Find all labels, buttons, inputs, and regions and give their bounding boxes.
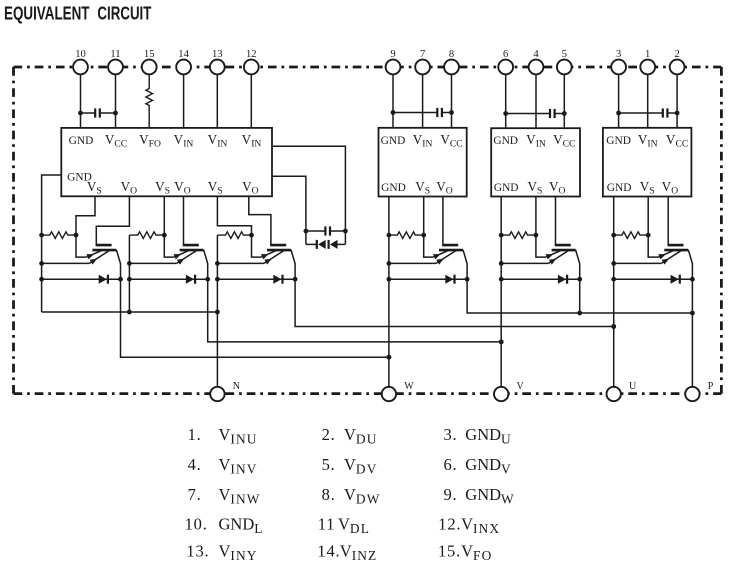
svg-text:GNDW: GNDW — [465, 485, 515, 507]
svg-text:GND: GND — [493, 135, 518, 147]
title text — [4, 2, 152, 23]
svg-text:VINU: VINU — [219, 425, 258, 447]
transistor Q4 (IGBT, high-side W) — [433, 245, 467, 279]
svg-text:GND: GND — [607, 182, 632, 194]
ic U3 (HVIC V-phase driver) — [491, 128, 580, 196]
svg-text:VINX: VINX — [461, 515, 500, 537]
wire collector Q4 to P bus — [467, 279, 695, 315]
svg-text:VINZ: VINZ — [340, 542, 378, 561]
svg-text:VFO: VFO — [461, 542, 492, 561]
wire VO to gate Q4 — [442, 197, 444, 246]
wire VS3 jog — [217, 196, 251, 235]
svg-text:4: 4 — [533, 49, 539, 60]
pin 4 — [529, 49, 544, 128]
wire VO2 to gate Q2 — [183, 196, 185, 245]
resistor R1 — [39, 232, 78, 239]
wire VO to gate Q5 — [555, 197, 557, 246]
resistor R3 — [217, 232, 254, 239]
pin 1 — [640, 49, 655, 128]
wire VO1 to gate Q1 — [96, 196, 129, 245]
diode D5 — [501, 275, 582, 284]
wire U1 to bootstrap loop left — [272, 176, 306, 231]
svg-text:GNDL: GNDL — [219, 515, 264, 537]
transistor Q1 (IGBT, low-side) — [86, 245, 120, 279]
capacitor C4 (pin3-pin2) — [616, 108, 679, 117]
diode D3 — [217, 275, 297, 284]
ic U2 (HVIC W-phase driver) — [379, 128, 467, 197]
transistor Q5 (IGBT, high-side V) — [546, 245, 580, 279]
svg-text:VDU: VDU — [344, 425, 377, 447]
wire U1 to bootstrap loop right — [272, 146, 345, 231]
pin 15 — [142, 49, 157, 128]
module case outline (dash-dot border) — [14, 67, 722, 394]
wire VO3 to gate Q3 — [249, 196, 271, 245]
transistor Q3 (IGBT, low-side) — [261, 245, 295, 279]
pin name list — [185, 425, 515, 563]
resistor R4 — [389, 232, 426, 239]
wire emitter Q6 — [614, 262, 662, 264]
pin 14 — [176, 49, 191, 128]
svg-text:8: 8 — [449, 49, 454, 60]
pin 2 — [670, 49, 685, 128]
capacitor C2 (pin9-pin8) — [391, 108, 454, 117]
wire emitter Q5 — [501, 262, 548, 264]
ic U4 (HVIC U-phase driver) — [603, 128, 692, 197]
svg-text:13.: 13. — [186, 542, 209, 561]
svg-text:15: 15 — [144, 49, 155, 60]
svg-text:GND: GND — [69, 135, 94, 147]
svg-text:3.: 3. — [444, 425, 458, 444]
wire collector Q2 to node V — [208, 279, 504, 344]
diode D2 — [129, 275, 210, 284]
wire VS2 to emitter sense Q2 — [164, 196, 174, 257]
svg-text:12: 12 — [246, 49, 257, 60]
pin P — [685, 381, 714, 401]
svg-text:5: 5 — [562, 49, 567, 60]
svg-text:VDL: VDL — [338, 515, 370, 537]
svg-text:GND: GND — [381, 182, 406, 194]
svg-text:4.: 4. — [188, 455, 202, 474]
pin 13 — [210, 49, 225, 128]
svg-text:2.: 2. — [322, 425, 336, 444]
wire node E2 — [127, 235, 132, 314]
svg-text:VDW: VDW — [344, 485, 380, 507]
svg-text:1: 1 — [645, 49, 650, 60]
wire VS to emitter sense Q5 — [536, 197, 546, 258]
svg-text:14: 14 — [178, 49, 189, 60]
diode D1 — [39, 275, 123, 284]
svg-text:8.: 8. — [322, 485, 336, 504]
pin N — [210, 381, 240, 401]
resistor R2 — [129, 232, 166, 239]
svg-text:VINY: VINY — [219, 542, 258, 561]
ic U1 (LVIC low-side gate driver block) — [61, 128, 272, 197]
svg-text:VDV: VDV — [344, 455, 377, 477]
svg-text:9: 9 — [390, 49, 395, 60]
pin 12 — [244, 49, 259, 128]
wire node E3 to pin N — [215, 235, 220, 387]
capacitor C1 (pin10-pin11) — [78, 108, 118, 117]
transistor Q2 (IGBT, low-side) — [174, 245, 208, 279]
diode D6 — [614, 275, 695, 284]
svg-text:15.: 15. — [438, 542, 461, 561]
wire emitter Q4 — [389, 262, 436, 264]
svg-text:V: V — [517, 381, 525, 392]
svg-text:11: 11 — [318, 515, 336, 534]
transistor Q6 (IGBT, high-side U) — [658, 245, 692, 279]
svg-text:VINV: VINV — [219, 455, 258, 477]
svg-text:CIRCUIT: CIRCUIT — [97, 2, 151, 23]
svg-text:14.: 14. — [317, 542, 340, 561]
svg-text:1.: 1. — [188, 425, 202, 444]
svg-text:10.: 10. — [185, 515, 208, 534]
svg-text:2: 2 — [674, 49, 679, 60]
capacitor C5 (bootstrap) — [304, 226, 348, 235]
wire collector Q3 to node U — [295, 279, 616, 329]
pin 10 — [73, 49, 88, 128]
svg-text:GND: GND — [381, 135, 406, 147]
diode D4 — [389, 275, 470, 284]
pin 7 — [415, 49, 430, 128]
resistor R6 — [614, 232, 651, 239]
pin 5 — [557, 49, 572, 128]
svg-text:6.: 6. — [444, 455, 458, 474]
svg-text:7: 7 — [420, 49, 425, 60]
wire VS3 to emitter sense Q3 — [252, 235, 262, 257]
svg-text:5.: 5. — [322, 455, 336, 474]
wire VS1 to emitter sense Q1 — [76, 196, 95, 257]
svg-text:GNDU: GNDU — [465, 425, 512, 447]
svg-text:3: 3 — [616, 49, 621, 60]
svg-text:EQUIVALENT: EQUIVALENT — [4, 2, 90, 23]
wire VS to emitter sense Q6 — [648, 197, 658, 258]
svg-text:N: N — [233, 381, 240, 392]
svg-text:GND: GND — [606, 135, 631, 147]
svg-text:12.: 12. — [438, 515, 461, 534]
wire GND/U-output vertical — [611, 197, 616, 387]
resistor R5 — [501, 232, 538, 239]
wire collector Q5 to P bus — [579, 279, 581, 313]
wire VO to gate Q6 — [667, 197, 669, 246]
wire GND/V-output vertical — [499, 197, 504, 387]
svg-text:GNDV: GNDV — [465, 455, 512, 477]
wire emitter Q3 to E3 — [217, 262, 264, 264]
pin 3 — [611, 49, 626, 128]
wire GND-L from U1 to node E1 — [42, 175, 62, 312]
svg-text:GND: GND — [494, 182, 519, 194]
svg-text:P: P — [708, 381, 714, 392]
pin 6 — [498, 49, 513, 128]
svg-text:7.: 7. — [188, 485, 202, 504]
wire collector Q6 to pin P — [691, 279, 693, 387]
svg-text:9.: 9. — [444, 485, 458, 504]
wire emitter Q1 to E1 — [39, 261, 89, 266]
diode D7 — [306, 240, 326, 249]
pin V — [494, 381, 525, 401]
svg-text:6: 6 — [503, 49, 508, 60]
wire collector Q1 to node W — [121, 279, 392, 359]
wire N bus — [42, 311, 218, 313]
pin W — [382, 381, 415, 401]
pin 8 — [444, 49, 459, 128]
svg-text:10: 10 — [75, 49, 86, 60]
svg-text:W: W — [404, 381, 414, 392]
wire bootstrap loop sides — [306, 231, 346, 244]
capacitor C3 (pin6-pin5) — [503, 109, 566, 118]
svg-text:U: U — [629, 381, 637, 392]
wire GND/W-output vertical — [387, 197, 392, 387]
diode D8 — [329, 240, 346, 249]
pin U — [607, 381, 638, 401]
pin 9 — [386, 49, 401, 128]
pin 11 — [108, 49, 123, 128]
wire VS to emitter sense Q4 — [424, 197, 434, 258]
svg-text:VINW: VINW — [219, 485, 261, 507]
wire emitter Q2 to E2 — [129, 262, 176, 264]
svg-text:11: 11 — [110, 49, 120, 60]
svg-text:13: 13 — [212, 49, 223, 60]
